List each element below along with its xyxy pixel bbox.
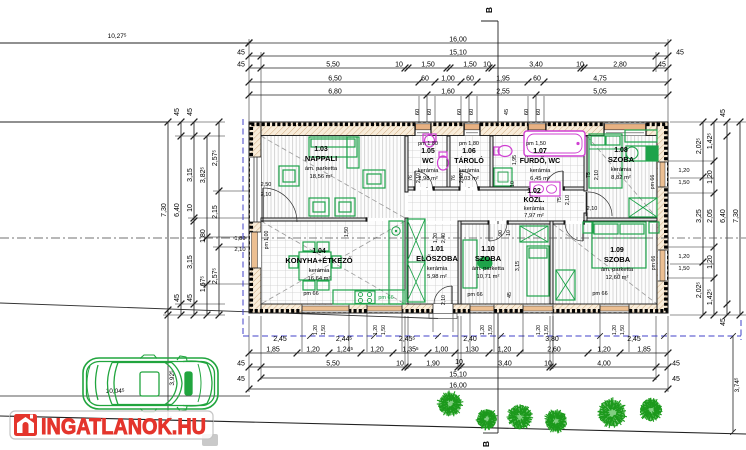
svg-text:6,45 m²: 6,45 m² — [530, 176, 550, 182]
svg-text:2,10: 2,10 — [441, 295, 447, 305]
svg-text:90: 90 — [498, 230, 504, 236]
svg-text:1.03: 1.03 — [314, 146, 328, 153]
svg-text:kerámia: kerámia — [524, 206, 545, 212]
x-wardrobe szoba109 — [556, 270, 575, 300]
svg-text:76: 76 — [408, 175, 414, 181]
right wall window 1 — [658, 162, 667, 187]
svg-text:1.02: 1.02 — [527, 188, 541, 195]
svg-text:5,98 m²: 5,98 m² — [427, 274, 447, 280]
svg-text:pm 66: pm 66 — [651, 256, 657, 271]
bottom dims row 15,10 — [261, 377, 656, 379]
svg-text:4,00: 4,00 — [597, 361, 611, 368]
svg-text:1,20: 1,20 — [498, 347, 512, 354]
svg-text:45: 45 — [237, 361, 245, 368]
svg-text:12,60 m²: 12,60 m² — [606, 275, 629, 281]
roof diagonal dashed lines — [261, 136, 405, 218]
svg-text:1,50: 1,50 — [321, 325, 327, 335]
svg-text:75: 75 — [586, 172, 592, 178]
svg-text:SZOBA: SZOBA — [608, 155, 635, 164]
left wall nappali terrace door opening — [250, 157, 261, 222]
x-wardrobe szoba110 — [520, 226, 548, 242]
svg-text:45: 45 — [237, 376, 245, 383]
svg-text:2,60: 2,60 — [547, 347, 561, 354]
svg-text:10,71 m²: 10,71 m² — [477, 274, 500, 280]
window bottom wall W-konyha1 — [302, 305, 349, 313]
svg-text:3,40: 3,40 — [529, 62, 543, 69]
svg-text:60: 60 — [524, 109, 530, 115]
svg-text:60: 60 — [457, 109, 463, 115]
svg-text:1,60: 1,60 — [441, 89, 455, 96]
floor WC tile — [408, 136, 447, 187]
svg-text:45: 45 — [720, 318, 727, 326]
top dims row 16,00 — [249, 42, 668, 44]
svg-text:pm 1,00: pm 1,00 — [264, 231, 270, 250]
svg-text:8,82 m²: 8,82 m² — [611, 175, 631, 181]
svg-text:KONYHA+ÉTKEZŐ: KONYHA+ÉTKEZŐ — [285, 256, 352, 265]
door WC — [414, 171, 416, 189]
furdo double sink — [530, 182, 560, 196]
floor KOZL tile — [408, 190, 584, 221]
svg-text:1,20: 1,20 — [433, 233, 439, 243]
svg-text:1,20: 1,20 — [373, 325, 379, 335]
svg-text:1.10: 1.10 — [481, 246, 495, 253]
svg-text:45: 45 — [672, 376, 680, 383]
bed szoba110 — [527, 246, 549, 296]
svg-text:pm 66: pm 66 — [467, 292, 482, 298]
svg-text:2,10: 2,10 — [587, 206, 598, 212]
svg-text:1,20: 1,20 — [536, 325, 542, 335]
svg-text:pm 66: pm 66 — [650, 175, 656, 190]
svg-text:45: 45 — [187, 294, 194, 302]
svg-text:WC: WC — [422, 158, 434, 165]
stove — [355, 291, 375, 304]
svg-text:FÜRDŐ, WC: FÜRDŐ, WC — [520, 156, 560, 165]
kitchen counter bottom — [333, 290, 405, 304]
top dims row rooms — [249, 67, 668, 69]
floor SZOBA 1.09 parquet — [553, 224, 657, 304]
right dim col 6,40 — [726, 122, 728, 315]
svg-text:1,30: 1,30 — [465, 347, 479, 354]
interior wall szoba108 bottom — [587, 218, 657, 221]
svg-text:45: 45 — [676, 50, 684, 57]
svg-text:10: 10 — [544, 361, 552, 368]
svg-text:45: 45 — [507, 292, 513, 298]
svg-text:10: 10 — [510, 181, 516, 187]
exterior wall left — [249, 122, 261, 313]
wc toilet — [439, 152, 447, 157]
svg-text:1.01: 1.01 — [430, 246, 444, 253]
site line: top property line 10,27 — [0, 42, 249, 44]
svg-text:kerámia: kerámia — [611, 167, 632, 173]
window bottom wall W-szoba109a — [523, 305, 553, 313]
svg-text:1,00: 1,00 — [435, 347, 449, 354]
bed szoba109 — [592, 222, 646, 268]
sofa nappali — [309, 137, 357, 157]
svg-text:2,10: 2,10 — [565, 195, 571, 205]
svg-text:ám. parketta: ám. parketta — [472, 266, 505, 272]
window top wall W-szoba108 — [604, 123, 646, 136]
svg-text:10: 10 — [187, 204, 194, 212]
armchair nappali b2 — [335, 198, 355, 216]
logo house icon — [14, 414, 37, 436]
door SZOBA 1.08 — [586, 192, 588, 216]
svg-text:45: 45 — [237, 62, 245, 69]
door TAROLO — [459, 171, 461, 189]
svg-text:1,20: 1,20 — [313, 325, 319, 335]
svg-text:2,05: 2,05 — [707, 209, 714, 223]
interior wall corridor bottom — [461, 221, 489, 224]
svg-text:B: B — [481, 441, 491, 447]
svg-text:pm 66: pm 66 — [303, 291, 318, 297]
svg-text:2,10: 2,10 — [594, 170, 600, 180]
svg-text:10: 10 — [506, 230, 512, 236]
wardrobe szoba108 top — [625, 130, 657, 142]
svg-text:1,20: 1,20 — [678, 254, 689, 260]
svg-text:1,50: 1,50 — [381, 325, 387, 335]
right dim col windows — [713, 122, 715, 315]
svg-text:ám. parketta: ám. parketta — [601, 267, 634, 273]
interior wall nappali/konyha horizontal — [261, 218, 367, 221]
svg-text:SZOBA: SZOBA — [604, 255, 631, 264]
dining table konyha — [299, 252, 331, 280]
floor FURDO tile — [493, 136, 584, 187]
right wall window 2 — [658, 250, 667, 281]
window bottom wall W-szoba110 — [470, 305, 494, 313]
armchair nappali b1 — [309, 198, 329, 216]
window top wall W-tarolo — [464, 123, 480, 136]
floor KONYHA tile — [261, 221, 405, 304]
desk szoba110 — [463, 240, 477, 288]
svg-text:1.05: 1.05 — [421, 148, 435, 155]
interior wall eloszoba/szoba110 — [458, 221, 461, 304]
top dims row 6,80 — [249, 94, 668, 96]
watermark logo box — [202, 434, 218, 446]
svg-text:15,10: 15,10 — [449, 372, 467, 379]
svg-text:INGATLANOK.HU: INGATLANOK.HU — [41, 414, 206, 439]
svg-text:2,45: 2,45 — [273, 336, 287, 343]
bottom dims row rooms — [249, 366, 668, 368]
svg-text:45: 45 — [174, 294, 181, 302]
svg-text:1,85: 1,85 — [266, 347, 280, 354]
svg-text:pm 66: pm 66 — [378, 295, 393, 301]
svg-text:pm 1,50: pm 1,50 — [526, 141, 546, 147]
section line B-B — [497, 21, 499, 433]
svg-text:pm 1,80: pm 1,80 — [418, 141, 438, 147]
svg-text:60: 60 — [536, 109, 542, 115]
svg-text:60: 60 — [415, 109, 421, 115]
bed szoba108 — [589, 134, 622, 188]
svg-text:kerámia: kerámia — [530, 168, 551, 174]
svg-text:TÁROLÓ: TÁROLÓ — [454, 156, 484, 165]
floor SZOBA 1.10 parquet — [461, 224, 550, 304]
svg-text:60: 60 — [533, 76, 541, 83]
svg-text:3,15: 3,15 — [515, 261, 521, 271]
axis verticals — [426, 95, 428, 188]
interior wall szoba110/szoba109 — [550, 221, 553, 304]
svg-text:1,50: 1,50 — [421, 62, 435, 69]
window top wall W-furdo — [528, 123, 546, 136]
svg-text:7,30: 7,30 — [733, 209, 740, 223]
svg-text:2,80: 2,80 — [613, 62, 627, 69]
svg-text:2,10: 2,10 — [234, 247, 245, 253]
window bottom wall W-konyha2 — [367, 305, 402, 313]
svg-text:5,50: 5,50 — [326, 361, 340, 368]
svg-text:1,00: 1,00 — [441, 76, 455, 83]
left dim col 6,40 — [180, 122, 182, 315]
bottom window extension lines — [301, 313, 303, 352]
svg-text:10: 10 — [576, 62, 584, 69]
site center dash-dot line — [0, 237, 256, 239]
road line over logo — [10, 416, 213, 421]
svg-text:1,20: 1,20 — [480, 325, 486, 335]
right dim col 7,30 — [739, 122, 741, 315]
svg-text:15,10: 15,10 — [449, 50, 467, 57]
svg-text:2,55: 2,55 — [496, 89, 510, 96]
svg-text:1.06: 1.06 — [462, 148, 476, 155]
svg-text:16,00: 16,00 — [449, 37, 467, 44]
svg-text:1,85: 1,85 — [637, 347, 651, 354]
svg-text:1.07: 1.07 — [533, 148, 547, 155]
floor NAPPALI parquet — [261, 136, 405, 218]
left dim col 7,30 — [167, 122, 169, 315]
svg-text:60: 60 — [427, 109, 433, 115]
svg-text:2,10: 2,10 — [459, 173, 465, 183]
svg-text:6,50: 6,50 — [328, 76, 342, 83]
svg-text:6,40: 6,40 — [174, 203, 181, 217]
wardrobe eloszoba — [407, 219, 425, 302]
svg-text:NAPPALI: NAPPALI — [305, 154, 337, 163]
bathtub — [524, 131, 585, 156]
svg-text:1,80: 1,80 — [200, 229, 207, 243]
door nappali terrace — [262, 188, 264, 222]
interior wall furdo/szoba108 — [584, 136, 587, 191]
furdo toilet — [494, 147, 499, 155]
svg-text:3,40: 3,40 — [498, 361, 512, 368]
svg-text:45: 45 — [504, 109, 510, 115]
parking dim 3,92 vertical — [167, 310, 169, 420]
svg-text:45: 45 — [720, 109, 727, 117]
svg-text:ám. parketta: ám. parketta — [305, 166, 338, 172]
svg-text:1,20: 1,20 — [612, 325, 618, 335]
svg-text:pm 1,80: pm 1,80 — [459, 141, 479, 147]
entrance door opening bottom — [433, 304, 453, 314]
svg-text:3,80: 3,80 — [545, 336, 559, 343]
svg-text:pm 66: pm 66 — [592, 291, 607, 297]
svg-text:16,64 m²: 16,64 m² — [308, 276, 331, 282]
svg-text:45: 45 — [658, 62, 666, 69]
svg-text:kerámia: kerámia — [309, 268, 330, 274]
svg-text:1,50: 1,50 — [488, 325, 494, 335]
svg-text:45: 45 — [174, 108, 181, 116]
kitchen counter right — [389, 221, 403, 304]
road line bottom — [0, 416, 746, 434]
svg-text:2,50: 2,50 — [261, 182, 272, 188]
svg-text:75: 75 — [557, 197, 563, 203]
svg-text:6,40: 6,40 — [720, 209, 727, 223]
interior wall corridor top — [408, 187, 415, 190]
top window extension lines — [418, 96, 420, 123]
svg-text:5,50: 5,50 — [326, 62, 340, 69]
wc sink — [423, 134, 436, 142]
svg-text:1,90: 1,90 — [426, 361, 440, 368]
door SZOBA 1.10 — [488, 223, 490, 241]
svg-text:1,50: 1,50 — [678, 266, 689, 272]
left dim connectors — [163, 121, 225, 123]
svg-text:10: 10 — [483, 62, 491, 69]
svg-text:7,30: 7,30 — [161, 203, 168, 217]
trees / bushes — [437, 391, 464, 417]
x-wardrobe szoba108 — [629, 198, 657, 217]
svg-text:kerámia: kerámia — [427, 266, 448, 272]
svg-text:1,95: 1,95 — [512, 155, 518, 165]
left dim col 3,82 — [206, 136, 208, 315]
svg-text:1,20: 1,20 — [370, 347, 384, 354]
svg-text:45: 45 — [187, 108, 194, 116]
svg-text:2,10: 2,10 — [416, 173, 422, 183]
svg-text:10: 10 — [455, 359, 463, 366]
svg-text:1,20: 1,20 — [707, 170, 714, 184]
site line: left upper — [0, 121, 168, 123]
window bottom wall W-szoba109b — [600, 305, 629, 313]
svg-text:1.08: 1.08 — [614, 147, 628, 154]
desk szoba108 — [626, 146, 658, 161]
left dim col 2,57 — [218, 122, 220, 315]
window top wall W-wc — [415, 123, 431, 136]
tv stand nappali — [279, 166, 299, 186]
svg-text:45: 45 — [672, 361, 680, 368]
svg-text:2,40: 2,40 — [441, 233, 447, 243]
floor ELOSZOBA tile — [408, 224, 458, 304]
right dim col 2,02 — [702, 122, 704, 315]
svg-text:1,50: 1,50 — [463, 62, 477, 69]
svg-text:1,20: 1,20 — [678, 168, 689, 174]
svg-text:60: 60 — [469, 109, 475, 115]
bottom dims row 16,00 — [249, 388, 668, 390]
chair szoba108 — [626, 147, 638, 159]
site sloped line — [0, 303, 438, 319]
bottom dims row small — [249, 352, 668, 354]
exterior wall right — [657, 122, 668, 313]
svg-text:1,50: 1,50 — [678, 180, 689, 186]
svg-text:1,20: 1,20 — [597, 347, 611, 354]
furdo shower — [494, 168, 512, 186]
svg-text:1,95: 1,95 — [496, 76, 510, 83]
svg-text:5,05: 5,05 — [593, 89, 607, 96]
top dims row windows — [249, 81, 668, 83]
svg-text:1.04: 1.04 — [312, 248, 326, 255]
exterior wall top — [249, 122, 668, 136]
svg-text:B: B — [484, 7, 494, 13]
svg-text:7,97 m²: 7,97 m² — [524, 213, 544, 219]
svg-text:1,20: 1,20 — [306, 347, 320, 354]
svg-text:KÖZL.: KÖZL. — [524, 195, 545, 204]
svg-text:60: 60 — [466, 76, 474, 83]
svg-text:2,10: 2,10 — [261, 192, 272, 198]
svg-text:1.09: 1.09 — [610, 247, 624, 254]
svg-text:2,15: 2,15 — [212, 205, 219, 219]
svg-text:16,00: 16,00 — [449, 383, 467, 390]
svg-text:18,56 m²: 18,56 m² — [310, 174, 333, 180]
svg-text:1,50: 1,50 — [544, 325, 550, 335]
svg-text:1,50: 1,50 — [620, 325, 626, 335]
interior wall wc/tarolo — [447, 136, 450, 187]
exterior wall bottom — [249, 304, 668, 313]
top dims row 15,10 — [249, 55, 668, 57]
interior wall nappali/middle vertical — [405, 136, 408, 192]
door jamb caps — [414, 186, 416, 190]
right site vdim 3,74 — [732, 336, 734, 432]
interior wall tarolo/furdo — [490, 136, 493, 187]
door SZOBA 1.09 — [582, 223, 584, 241]
svg-text:1,20: 1,20 — [707, 255, 714, 269]
left dim col rooms — [193, 122, 195, 315]
floor SZOBA 1.08 parquet — [587, 136, 657, 218]
svg-text:4,75: 4,75 — [593, 76, 607, 83]
svg-text:6,80: 6,80 — [328, 89, 342, 96]
svg-text:3,15: 3,15 — [187, 168, 194, 182]
blue dashed row labels — [307, 333, 313, 339]
svg-text:ELŐSZOBA: ELŐSZOBA — [416, 254, 458, 263]
insulation dotted outline — [251, 124, 666, 310]
svg-text:3,15: 3,15 — [187, 255, 194, 269]
right dim connectors — [670, 121, 746, 123]
svg-text:10: 10 — [396, 361, 404, 368]
door entrance — [451, 286, 453, 304]
svg-text:76: 76 — [451, 175, 457, 181]
roof overhang blue dashed — [242, 119, 244, 336]
chairs konyha — [303, 242, 315, 251]
dash-dot line across kitchen — [261, 237, 746, 239]
svg-text:3,25: 3,25 — [696, 209, 703, 223]
svg-text:SZOBA: SZOBA — [475, 254, 502, 263]
car top view — [83, 355, 218, 412]
svg-text:1,50: 1,50 — [344, 227, 350, 237]
svg-text:45: 45 — [237, 50, 245, 57]
parking dim 10,04 — [0, 395, 250, 397]
chain extension verticals — [248, 39, 250, 122]
floor TAROLO tile — [450, 136, 490, 187]
svg-text:10: 10 — [395, 62, 403, 69]
svg-text:60: 60 — [421, 76, 429, 83]
door FURDO — [562, 171, 564, 189]
armchair nappali right — [363, 170, 385, 188]
left wall konyha window — [250, 232, 261, 268]
